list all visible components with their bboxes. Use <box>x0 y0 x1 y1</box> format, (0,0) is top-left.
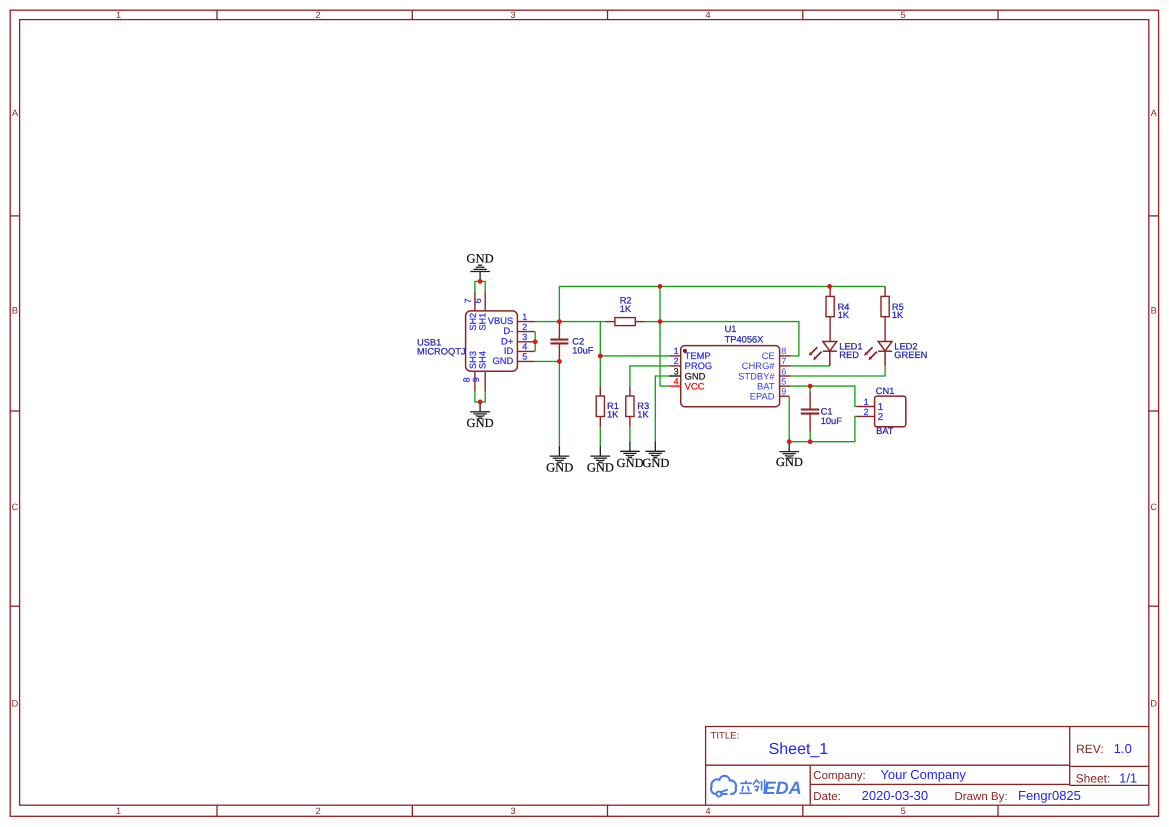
op-amp/IC U1 TP4056X body <box>681 346 780 407</box>
U1 designator labels <box>725 324 764 344</box>
capacitor C2 <box>550 322 568 362</box>
svg-text:GND: GND <box>467 416 494 430</box>
wire STDBY#: U1 pin 6 to LED2 <box>791 366 886 376</box>
svg-text:Company:: Company: <box>813 770 865 782</box>
USB1 pin numbers <box>461 298 527 382</box>
svg-text:1/1: 1/1 <box>1119 770 1137 785</box>
svg-text:10uF: 10uF <box>821 416 843 426</box>
title block values <box>769 741 1138 803</box>
svg-text:VCC: VCC <box>685 380 705 391</box>
junction dot <box>808 439 813 444</box>
svg-text:1: 1 <box>116 10 121 20</box>
wire BAT-: CN1 pin 2 to bottom ground run <box>789 416 856 441</box>
svg-text:B: B <box>1151 305 1157 315</box>
ground GND (U1 pin 3) <box>646 441 666 457</box>
svg-text:SH4: SH4 <box>478 351 488 369</box>
LED2 labels <box>894 341 927 360</box>
wire VBUS: USB pin1 to C2 top to R2 left, down to TEMP node <box>535 322 601 356</box>
svg-text:GND: GND <box>642 456 669 470</box>
wire VBUS rail: C2 top up, across to R4 and R5 <box>559 286 885 321</box>
CN1 designator labels <box>876 386 895 436</box>
svg-text:1: 1 <box>522 312 527 322</box>
R2 labels <box>620 296 632 315</box>
svg-text:5: 5 <box>901 806 906 816</box>
svg-text:Your Company: Your Company <box>880 767 966 782</box>
wire node TEMP: to U1 pin 1 <box>600 355 669 357</box>
svg-text:BAT: BAT <box>876 426 894 436</box>
svg-text:EDA: EDA <box>764 778 802 798</box>
svg-text:GND: GND <box>587 461 614 475</box>
svg-text:7: 7 <box>781 356 786 366</box>
junction dot <box>478 279 483 284</box>
CN1 pin names <box>878 402 884 423</box>
wire C2 bottom to ground <box>558 361 560 446</box>
junction dot <box>658 319 663 324</box>
svg-text:3: 3 <box>674 366 679 376</box>
svg-text:3: 3 <box>510 806 515 816</box>
svg-text:CN1: CN1 <box>876 386 895 396</box>
ground GND (R3) <box>620 441 640 457</box>
junction dot <box>533 339 538 344</box>
U1 right pin numbers <box>781 346 786 396</box>
junction dot <box>827 284 832 289</box>
svg-text:TITLE:: TITLE: <box>711 731 740 742</box>
svg-text:5: 5 <box>522 352 527 362</box>
svg-text:1K: 1K <box>892 310 904 320</box>
ground GND (battery minus / EPAD) <box>779 442 799 458</box>
junction dot <box>658 284 663 289</box>
resistor R4 <box>826 286 834 341</box>
svg-text:4: 4 <box>705 10 710 20</box>
U1 pin-1 marker dot <box>683 349 687 353</box>
svg-text:GND: GND <box>617 456 644 470</box>
R1 labels <box>607 401 619 419</box>
svg-text:GND: GND <box>776 455 803 469</box>
svg-text:4: 4 <box>522 342 527 352</box>
svg-text:EPAD: EPAD <box>750 391 775 402</box>
USB1 pin names <box>488 315 514 366</box>
LED LED1 RED <box>823 342 837 366</box>
ground GND (below USB1 shield) <box>470 402 490 418</box>
wire VCC: top rail down to U1 pin 4 <box>660 286 670 386</box>
svg-text:2: 2 <box>316 10 321 20</box>
svg-text:MICROQTJ: MICROQTJ <box>417 346 466 356</box>
resistor R1 <box>596 386 604 427</box>
wire PROG: R3 top to U1 pin 2 <box>630 366 670 386</box>
connector CN1 BAT body <box>875 396 906 427</box>
ground GND (C2) <box>550 446 570 462</box>
svg-text:GND: GND <box>492 355 513 366</box>
wire USB shield bottom loop <box>475 392 485 402</box>
junction dot <box>598 354 603 359</box>
svg-text:8: 8 <box>461 377 471 382</box>
svg-text:SH1: SH1 <box>478 313 488 331</box>
U1 right pin names <box>738 350 775 401</box>
wire BAT: U1 pin 5 to C1 top and CN1 pin 1 <box>791 386 857 406</box>
svg-text:D: D <box>12 699 19 709</box>
wire R1 top: TEMP node down to R1 <box>599 356 601 386</box>
svg-text:GREEN: GREEN <box>894 350 927 360</box>
svg-text:GND: GND <box>467 251 494 265</box>
svg-text:Drawn By:: Drawn By: <box>955 791 1008 803</box>
resistor R3 <box>626 386 634 427</box>
svg-text:2: 2 <box>864 407 869 417</box>
svg-text:2: 2 <box>316 806 321 816</box>
U1 pin 4 VCC (red) <box>670 385 681 387</box>
svg-text:1K: 1K <box>838 310 850 320</box>
svg-text:10uF: 10uF <box>572 346 594 356</box>
svg-text:1.0: 1.0 <box>1114 741 1132 756</box>
svg-text:TP4056X: TP4056X <box>725 334 764 344</box>
svg-text:7: 7 <box>463 298 473 303</box>
junction dot <box>478 400 483 405</box>
svg-text:Sheet_1: Sheet_1 <box>769 741 829 758</box>
capacitor C1 <box>801 392 820 432</box>
svg-text:9: 9 <box>471 377 481 382</box>
wire USB shield top loop <box>475 281 485 291</box>
junction dot <box>557 319 562 324</box>
svg-text:4: 4 <box>674 376 679 386</box>
svg-text:2: 2 <box>522 322 527 332</box>
CN1 pin numbers <box>864 397 869 417</box>
svg-text:C: C <box>12 502 19 512</box>
U1 left pin numbers <box>674 346 679 386</box>
R5 labels <box>892 302 904 320</box>
USB1 designator label <box>417 338 466 357</box>
U1 pin 1 TEMP <box>670 355 681 357</box>
title block labels <box>711 731 1111 803</box>
svg-text:1K: 1K <box>620 304 632 314</box>
svg-text:1K: 1K <box>637 410 649 420</box>
resistor R2 <box>600 321 605 323</box>
svg-text:C: C <box>1150 502 1157 512</box>
wire C1 top lead <box>809 386 811 391</box>
svg-text:3: 3 <box>510 10 515 20</box>
svg-text:2: 2 <box>878 412 884 423</box>
USB1 shield pin names SH1-SH4 (rotated) <box>468 313 488 369</box>
resistor R5 <box>881 286 889 341</box>
connector USB1 MICROQTJ body <box>466 311 518 371</box>
svg-text:U1: U1 <box>725 324 737 334</box>
svg-text:Sheet:: Sheet: <box>1076 771 1111 785</box>
junction dot <box>557 359 562 364</box>
svg-text:6: 6 <box>473 298 483 303</box>
R4 labels <box>838 302 850 320</box>
U1 pin 2 PROG <box>670 365 681 367</box>
CN1 pin stubs <box>856 407 874 417</box>
svg-text:9: 9 <box>781 387 786 397</box>
ground GND (R1) <box>591 446 611 462</box>
svg-text:SH3: SH3 <box>468 351 478 369</box>
svg-text:SH2: SH2 <box>468 313 478 331</box>
LED LED2 GREEN <box>878 342 892 366</box>
wire GND: USB pin5 to C2 bottom <box>535 360 560 362</box>
svg-text:B: B <box>12 305 18 315</box>
C2 value labels <box>572 337 594 356</box>
C1 value labels <box>821 407 843 426</box>
svg-text:RED: RED <box>839 350 859 360</box>
wire R1 bottom to ground <box>599 427 601 447</box>
svg-text:6: 6 <box>781 366 786 376</box>
U1 pin 3 GND (black) <box>669 375 681 377</box>
svg-text:4: 4 <box>705 806 710 816</box>
title block <box>706 727 1149 806</box>
U1 pins 8,7,6,5,9 stubs <box>780 356 791 396</box>
junction dot <box>808 384 813 389</box>
svg-text:Date:: Date: <box>813 791 841 803</box>
svg-text:1: 1 <box>674 346 679 356</box>
svg-text:GND: GND <box>546 461 573 475</box>
svg-text:A: A <box>12 108 19 118</box>
R3 labels <box>637 401 649 419</box>
U1 left pin names <box>685 350 713 391</box>
junction dot <box>787 439 792 444</box>
LED1 labels <box>839 341 862 360</box>
wire USB D- D+ ID tie <box>534 332 536 352</box>
wire CHRG#: U1 pin 7 to LED1 <box>791 365 830 367</box>
svg-text:5: 5 <box>901 10 906 20</box>
EasyEDA (LCEDA) logo <box>711 776 765 797</box>
wire GND pin3: U1 pin 3 to ground <box>655 376 669 441</box>
svg-text:A: A <box>1151 108 1158 118</box>
wire CE net: R2 right junction to U1 pin 8 <box>660 322 799 356</box>
svg-text:1K: 1K <box>607 410 619 420</box>
wire C1 bottom lead <box>809 432 811 442</box>
svg-text:1: 1 <box>864 397 869 407</box>
wire EPAD: U1 pin 9 down to ground run <box>788 396 790 442</box>
svg-text:5: 5 <box>781 376 786 386</box>
wire R3 bottom to ground <box>629 427 631 442</box>
svg-text:2: 2 <box>674 356 679 366</box>
svg-text:D: D <box>1150 699 1157 709</box>
svg-text:Fengr0825: Fengr0825 <box>1018 788 1081 803</box>
ground GND (above USB1 shield) <box>470 265 490 281</box>
svg-text:1: 1 <box>116 806 121 816</box>
svg-text:REV:: REV: <box>1076 742 1104 756</box>
svg-text:8: 8 <box>781 346 786 356</box>
svg-text:3: 3 <box>522 332 527 342</box>
USB1 pins 1-5 stubs <box>475 291 535 391</box>
svg-text:2020-03-30: 2020-03-30 <box>862 788 929 803</box>
